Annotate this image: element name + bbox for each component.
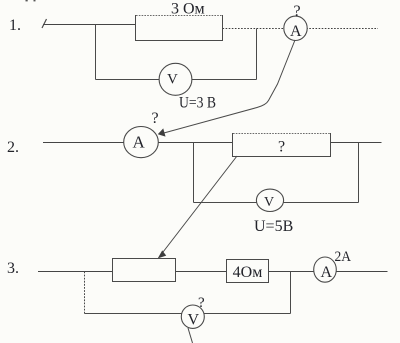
svg-text:?: ? (294, 3, 301, 20)
svg-text:U=5В: U=5В (254, 218, 293, 235)
svg-text:4Ом: 4Ом (233, 264, 263, 281)
svg-text:2А: 2А (335, 249, 352, 265)
svg-text:?: ? (278, 139, 285, 156)
svg-text:?: ? (152, 110, 159, 127)
svg-text:U=3 В: U=3 В (179, 95, 216, 112)
svg-text:V: V (188, 312, 200, 329)
svg-text:?: ? (198, 295, 205, 311)
svg-text:A: A (290, 23, 302, 40)
svg-text:3 Ом: 3 Ом (171, 1, 205, 18)
svg-text:V: V (167, 72, 178, 88)
svg-text:A: A (321, 264, 333, 281)
svg-text:V: V (264, 195, 274, 210)
svg-text:3.: 3. (7, 260, 19, 277)
svg-text:2.: 2. (7, 139, 19, 156)
svg-text:1.: 1. (9, 17, 21, 34)
svg-text:A: A (133, 133, 146, 152)
